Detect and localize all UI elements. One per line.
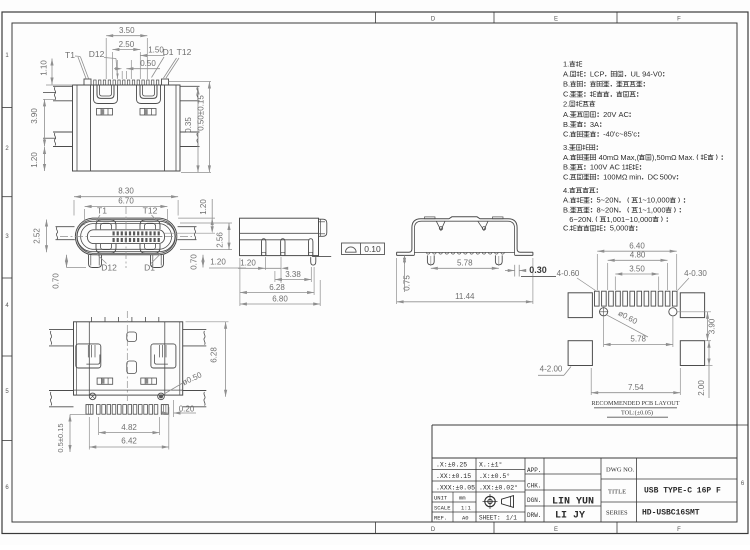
- svg-text:B.: B.: [563, 80, 570, 89]
- svg-text:3A: 3A: [590, 120, 599, 129]
- svg-text:0.50: 0.50: [140, 59, 156, 68]
- svg-text:.X:±0.5°: .X:±0.5°: [479, 472, 510, 480]
- svg-text:4-2.00: 4-2.00: [540, 365, 563, 374]
- svg-text:0.30: 0.30: [529, 265, 547, 275]
- svg-text:3.50: 3.50: [119, 26, 135, 35]
- svg-text:1.: 1.: [563, 60, 569, 69]
- svg-text:B.: B.: [563, 206, 570, 215]
- svg-text:8~20N: 8~20N: [597, 206, 619, 215]
- svg-text:-40'c~85'c: -40'c~85'c: [603, 130, 637, 139]
- svg-text:4.82: 4.82: [121, 423, 137, 432]
- svg-text:20V: 20V: [603, 110, 616, 119]
- svg-text:AC: AC: [610, 163, 621, 172]
- svg-text:6.42: 6.42: [121, 437, 137, 446]
- svg-text:CHK.: CHK.: [527, 483, 541, 490]
- svg-text:0.35: 0.35: [184, 117, 193, 133]
- svg-text:6~20N.: 6~20N.: [569, 215, 593, 224]
- svg-text:T12: T12: [143, 206, 158, 216]
- svg-text:5~20N: 5~20N: [597, 196, 619, 205]
- svg-text:T1: T1: [65, 50, 75, 60]
- svg-text:A0: A0: [462, 515, 469, 522]
- svg-text:E: E: [554, 527, 558, 533]
- svg-text:1~1,000: 1~1,000: [638, 206, 665, 215]
- svg-text:C.: C.: [563, 130, 571, 139]
- svg-text:SCALE: SCALE: [434, 505, 451, 512]
- svg-text:6.28: 6.28: [210, 347, 219, 363]
- svg-text:REF.: REF.: [434, 515, 447, 522]
- svg-text:0.50±0.15: 0.50±0.15: [197, 95, 206, 131]
- svg-text:D1: D1: [163, 47, 174, 57]
- svg-text:1,001~10,000: 1,001~10,000: [606, 215, 652, 224]
- svg-text:DRW.: DRW.: [527, 512, 541, 519]
- svg-text:Max,(: Max,(: [620, 153, 639, 162]
- svg-text:3.90: 3.90: [708, 318, 717, 334]
- svg-text:94-V0: 94-V0: [642, 70, 662, 79]
- svg-text:1: 1: [622, 163, 626, 172]
- svg-text:C.: C.: [563, 224, 571, 233]
- svg-text:E: E: [554, 17, 558, 23]
- svg-text:LI JY: LI JY: [555, 511, 585, 522]
- svg-text:5.78: 5.78: [630, 335, 646, 344]
- svg-text:min: min: [629, 173, 641, 182]
- svg-text:1:1: 1:1: [461, 505, 472, 512]
- svg-text:TITLE: TITLE: [608, 489, 626, 496]
- svg-text:B.: B.: [563, 163, 570, 172]
- svg-text:100V: 100V: [590, 163, 608, 172]
- svg-text:1.20: 1.20: [30, 152, 39, 168]
- svg-text:A.: A.: [563, 153, 570, 162]
- svg-text:3.: 3.: [563, 143, 569, 152]
- svg-text:F: F: [677, 527, 681, 533]
- svg-text:100MΩ: 100MΩ: [603, 173, 628, 182]
- svg-text:2.56: 2.56: [216, 232, 225, 248]
- svg-text:RECOMMENDED PCB LAYOUT: RECOMMENDED PCB LAYOUT: [591, 400, 679, 407]
- svg-text:AC: AC: [619, 110, 630, 119]
- svg-text:),50mΩ: ),50mΩ: [652, 153, 677, 162]
- svg-text:LIN YUN: LIN YUN: [552, 497, 594, 508]
- svg-text:500v: 500v: [660, 173, 677, 182]
- svg-text:A.: A.: [563, 110, 570, 119]
- svg-text:0.75: 0.75: [403, 275, 412, 291]
- svg-text:7.54: 7.54: [628, 383, 644, 392]
- svg-text:DC: DC: [648, 173, 659, 182]
- svg-text:6.80: 6.80: [272, 295, 288, 304]
- svg-text:DGN.: DGN.: [527, 497, 541, 504]
- svg-text:1.20: 1.20: [210, 258, 226, 267]
- svg-text:1~10,000: 1~10,000: [638, 196, 670, 205]
- svg-text:D: D: [431, 527, 436, 533]
- svg-text:D1: D1: [144, 262, 155, 272]
- svg-text:0.70: 0.70: [190, 254, 199, 270]
- svg-text:B.: B.: [563, 120, 570, 129]
- svg-text:LCP: LCP: [590, 70, 605, 79]
- svg-text:C.: C.: [563, 173, 571, 182]
- svg-text:2.50: 2.50: [119, 40, 135, 49]
- svg-text:0.10: 0.10: [364, 244, 381, 254]
- svg-text:D12: D12: [101, 262, 117, 272]
- svg-text:3.38: 3.38: [285, 270, 301, 279]
- svg-text:D12: D12: [89, 49, 105, 59]
- svg-text:1/1: 1/1: [506, 515, 517, 522]
- svg-text:40mΩ: 40mΩ: [599, 153, 620, 162]
- svg-text:3.90: 3.90: [30, 108, 39, 124]
- svg-text:6.28: 6.28: [269, 283, 285, 292]
- svg-text:TOL:(±0.05): TOL:(±0.05): [621, 410, 653, 417]
- svg-text:1.20: 1.20: [240, 258, 256, 267]
- svg-text:3.50: 3.50: [629, 264, 645, 273]
- svg-text:HD-USBC16SMT: HD-USBC16SMT: [642, 509, 700, 518]
- svg-text:1.20: 1.20: [199, 199, 208, 215]
- svg-text:DWG NO.: DWG NO.: [606, 467, 635, 474]
- svg-text:APP.: APP.: [527, 467, 541, 474]
- svg-text:.X:±0.25: .X:±0.25: [436, 462, 467, 469]
- svg-text:2.: 2.: [563, 99, 569, 108]
- svg-text:1.10: 1.10: [40, 60, 49, 76]
- svg-text:11.44: 11.44: [455, 292, 475, 301]
- svg-text:mm: mm: [459, 495, 466, 502]
- svg-text:4.: 4.: [563, 186, 569, 195]
- svg-text:UL: UL: [631, 70, 641, 79]
- svg-text:2.52: 2.52: [33, 228, 42, 244]
- svg-text:5.78: 5.78: [457, 259, 473, 268]
- svg-text:4-0.30: 4-0.30: [684, 269, 707, 278]
- svg-text:.XX:±0.15: .XX:±0.15: [436, 473, 471, 480]
- svg-text:0.70: 0.70: [52, 273, 61, 289]
- svg-text:SERIES: SERIES: [606, 510, 628, 517]
- svg-text:T1: T1: [97, 206, 107, 216]
- svg-text:T12: T12: [177, 47, 192, 57]
- svg-text:5,000: 5,000: [610, 224, 629, 233]
- svg-text:Max.: Max.: [678, 153, 694, 162]
- svg-text:X.:±1°: X.:±1°: [479, 461, 502, 469]
- svg-text:4-0.60: 4-0.60: [557, 269, 580, 278]
- svg-text:0.5±0.15: 0.5±0.15: [56, 423, 65, 452]
- svg-text:6.70: 6.70: [118, 197, 134, 206]
- svg-text:8.30: 8.30: [118, 187, 134, 196]
- svg-text:UNIT: UNIT: [434, 495, 448, 502]
- svg-text:F: F: [677, 17, 681, 23]
- svg-text:A.: A.: [563, 70, 570, 79]
- svg-text:.XXX:±0.05: .XXX:±0.05: [436, 485, 475, 492]
- svg-text:A.: A.: [563, 196, 570, 205]
- svg-text:C.: C.: [563, 90, 571, 99]
- svg-text:D: D: [431, 17, 436, 23]
- svg-text:SHEET:: SHEET:: [479, 515, 501, 522]
- svg-text:4.80: 4.80: [630, 251, 646, 260]
- svg-text:6.40: 6.40: [629, 242, 645, 251]
- svg-text:.XX:±0.02°: .XX:±0.02°: [479, 484, 518, 492]
- svg-text:USB TYPE-C 16P F: USB TYPE-C 16P F: [644, 487, 721, 496]
- svg-text:2.00: 2.00: [697, 380, 706, 396]
- svg-text:0.20: 0.20: [179, 405, 195, 414]
